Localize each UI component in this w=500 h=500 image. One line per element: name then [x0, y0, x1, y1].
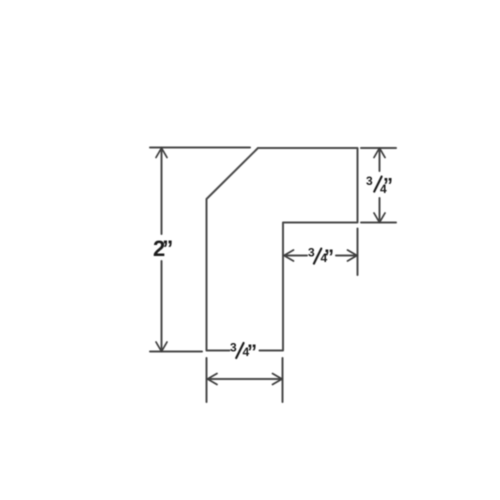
arrowhead down, 2in bottom — [156, 342, 167, 352]
arrowhead up, top-right 3/4in — [374, 148, 385, 158]
extension line, bottom 3/4in right — [282, 358, 284, 402]
profile outline (left part with chamfer) — [207, 148, 259, 351]
arrowhead left, bottom 3/4in — [208, 374, 218, 385]
arrowhead right, bottom 3/4in — [273, 374, 283, 385]
dimension line top-right 3/4in, lower segment — [379, 198, 381, 222]
extension line, top of 2in dimension — [150, 147, 250, 149]
svg-text:3: 3 — [230, 341, 237, 355]
extension line, bottom of 2in dimension — [150, 351, 202, 353]
dimension line 2in, lower segment — [161, 261, 163, 351]
label 3/4 inch, top right: fraction slash — [374, 177, 381, 192]
arrowhead left, middle 3/4in — [284, 250, 294, 261]
svg-text:”: ” — [324, 247, 334, 269]
dimension line 2in, upper segment — [161, 149, 163, 235]
dimension line top-right 3/4in, upper segment — [379, 149, 381, 171]
extension line, middle 3/4in right — [357, 229, 359, 276]
svg-text:3: 3 — [366, 174, 373, 188]
svg-text:”: ” — [247, 342, 257, 364]
dimension line middle 3/4in, left segment — [284, 255, 307, 257]
svg-text:”: ” — [162, 236, 173, 261]
label 3/4 inch, bottom: fraction slash — [236, 343, 243, 358]
extension line, top right 3/4in lower — [361, 222, 396, 224]
svg-text:3: 3 — [308, 246, 315, 260]
arrowhead down, top-right 3/4in — [374, 213, 385, 223]
label 3/4 inch, middle: fraction slash — [314, 249, 321, 264]
svg-text:”: ” — [383, 175, 393, 197]
extension line, bottom 3/4in left — [206, 358, 208, 402]
profile outline (L-shaped molding cross-section, right part) — [258, 148, 358, 351]
arrowhead up, 2in top — [156, 148, 167, 158]
dimension line bottom 3/4in — [208, 378, 282, 380]
arrowhead right, middle 3/4in — [348, 250, 358, 261]
dimension line middle 3/4in, right segment — [336, 255, 357, 257]
extension line, top right 3/4in upper — [361, 147, 396, 149]
